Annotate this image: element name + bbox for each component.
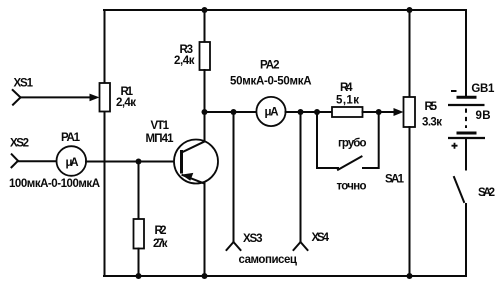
wire R5 upper lead: [409, 10, 411, 97]
terminal XS2: [12, 154, 19, 167]
wire emitter to bottom rail: [204, 183, 206, 276]
svg-text:2,4к: 2,4к: [116, 97, 136, 109]
wire XS3 lead: [233, 112, 235, 242]
svg-text:точно: точно: [337, 181, 367, 193]
label точно: [337, 181, 367, 193]
svg-text:R5: R5: [425, 101, 438, 113]
wire R2 lower lead: [138, 249, 140, 277]
svg-text:μА: μА: [66, 157, 79, 169]
label GB1: [471, 83, 495, 95]
label самописец: [239, 254, 298, 266]
wire R3 lower lead: [204, 70, 206, 112]
wire battery top lead: [465, 10, 467, 96]
svg-text:μА: μА: [265, 106, 279, 118]
label battery minus: [451, 90, 457, 92]
node R2 junction: [136, 159, 142, 165]
svg-text:27к: 27к: [153, 238, 168, 250]
label battery plus: [452, 143, 458, 149]
wire SA2 to bottom rail: [465, 204, 467, 276]
node XS3 junction: [231, 109, 237, 115]
label XS2: [10, 138, 29, 150]
ammeter PA2: [256, 97, 285, 126]
switch SA1: [317, 112, 379, 170]
label SA1: [385, 174, 405, 186]
svg-text:5,1к: 5,1к: [336, 95, 359, 107]
wire left border lower (R1 to bottom rail): [104, 112, 106, 277]
wire R3 upper lead: [204, 10, 206, 42]
node R5 bottom: [407, 273, 413, 279]
svg-text:XS3: XS3: [243, 233, 263, 245]
resistor R4: [332, 107, 363, 117]
node SA1 left junction: [314, 109, 320, 115]
wire left border upper (top rail to R1): [104, 10, 106, 83]
terminal XS3: [227, 242, 241, 250]
node R5 top: [407, 7, 413, 13]
label R1 value: [116, 86, 136, 109]
svg-text:РА2: РА2: [260, 59, 280, 71]
svg-text:XS1: XS1: [14, 78, 34, 90]
transistor VT1: [174, 140, 218, 184]
resistor R1: [100, 83, 111, 112]
svg-text:грубо: грубо: [338, 138, 367, 150]
svg-text:50мкА-0-50мкА: 50мкА-0-50мкА: [230, 75, 312, 87]
svg-text:R2: R2: [155, 225, 167, 237]
label XS4: [312, 232, 330, 244]
wire bottom rail: [104, 275, 466, 277]
wire XS1 to R1 wiper: [21, 94, 100, 102]
switch SA2: [454, 177, 464, 202]
svg-text:XS2: XS2: [10, 138, 29, 150]
svg-text:SA1: SA1: [385, 174, 405, 186]
terminal XS4: [294, 242, 308, 250]
wire R2 upper lead: [138, 162, 140, 220]
wire XS2 to PA1: [18, 160, 57, 162]
battery GB1: [448, 97, 485, 138]
resistor R3: [200, 42, 211, 70]
svg-text:VT1: VT1: [151, 120, 170, 132]
svg-text:2,4к: 2,4к: [174, 55, 195, 67]
node R3 top: [202, 7, 208, 13]
resistor R5: [404, 97, 416, 127]
wire collector to node: [204, 112, 206, 142]
wire battery to SA2: [465, 138, 467, 170]
label 9B: [476, 110, 491, 122]
svg-text:МП41: МП41: [146, 133, 175, 145]
svg-text:XS4: XS4: [312, 232, 330, 244]
svg-text:GB1: GB1: [471, 83, 495, 95]
wire node to PA2: [205, 111, 257, 113]
resistor R2: [134, 219, 145, 249]
label SA2: [478, 187, 495, 199]
node R2 bottom: [136, 273, 142, 279]
wire PA1 to base: [86, 161, 181, 163]
svg-text:R4: R4: [340, 82, 353, 94]
terminal XS1: [13, 90, 21, 105]
node XS4 junction: [298, 109, 304, 115]
label PA1: [61, 132, 81, 144]
ammeter PA1: [57, 146, 87, 176]
label XS1: [14, 78, 34, 90]
label PA1 range: [9, 178, 100, 190]
label PA2 range: [230, 75, 312, 87]
svg-text:9В: 9В: [476, 110, 491, 122]
wire XS4 lead: [300, 112, 302, 242]
label R2 value: [153, 225, 168, 250]
svg-text:самописец: самописец: [239, 254, 298, 266]
node collector junction: [202, 109, 208, 115]
node SA1 right junction: [376, 109, 382, 115]
svg-text:РА1: РА1: [61, 132, 81, 144]
svg-text:100мкА-0-100мкА: 100мкА-0-100мкА: [9, 178, 100, 190]
svg-text:3.3к: 3.3к: [422, 117, 442, 129]
node emitter bottom: [202, 273, 208, 279]
wire R4 to R5 wiper: [363, 108, 404, 116]
svg-text:SA2: SA2: [478, 187, 495, 199]
wire top rail: [104, 9, 466, 11]
label PA2: [260, 59, 280, 71]
label VT1: [146, 120, 175, 145]
label R3 value: [174, 44, 195, 67]
wire R5 lower lead: [409, 127, 411, 276]
wire PA2 to R4: [286, 111, 333, 113]
label грубо: [338, 138, 367, 150]
label XS3: [243, 233, 263, 245]
label R4 value: [336, 82, 359, 107]
label R5 value: [422, 101, 442, 129]
